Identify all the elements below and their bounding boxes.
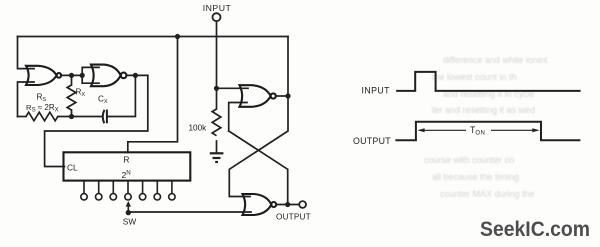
wire U3 bottom input	[229, 103, 247, 132]
wire left rail to U1 top input	[18, 37, 35, 69]
resistor 100k	[212, 109, 221, 136]
node RX bottom junction	[69, 114, 74, 119]
node U2 output junction	[133, 73, 138, 78]
wire SW to U4 bottom input	[128, 211, 251, 213]
wire bottom left stub	[18, 116, 27, 118]
counter block 2^N	[64, 152, 191, 180]
wire R feedback	[128, 37, 178, 153]
wire 100k bottom to ground	[216, 141, 218, 153]
svg-text:SeekIC.com: SeekIC.com	[480, 217, 590, 241]
wire U1 bottom input	[18, 82, 35, 117]
svg-text:all because the timing: all because the timing	[432, 172, 519, 182]
nor gate U1	[26, 66, 61, 85]
wire cross-couple U3 output to U4 input	[229, 96, 288, 197]
counter output terminals	[81, 182, 175, 201]
wire 100k top	[216, 88, 218, 109]
node SW junction	[126, 210, 131, 215]
nor gate U2	[91, 65, 126, 87]
wire U2 input tie bar	[82, 67, 99, 83]
node U1 out / RX junction	[69, 73, 74, 78]
wire U4 output	[276, 204, 299, 206]
svg-text:INPUT: INPUT	[362, 86, 391, 96]
svg-text:100k: 100k	[189, 123, 208, 132]
svg-text:ter and resetting it as wed: ter and resetting it as wed	[432, 105, 535, 115]
wire Rx top stub	[71, 75, 73, 85]
wire right rail	[287, 37, 289, 97]
resistor RX	[67, 85, 76, 110]
wire top rail	[18, 36, 289, 38]
wire CL feedback	[45, 75, 148, 166]
resistor RS	[26, 112, 58, 121]
svg-text:SW: SW	[123, 216, 137, 226]
wire INPUT vertical	[216, 22, 218, 89]
wire U2 output	[126, 74, 147, 76]
wire bottom Rs to Cx	[58, 116, 102, 118]
svg-text:difference and white iones: difference and white iones	[443, 55, 548, 65]
wire U3 output	[276, 95, 288, 97]
wire Rx bottom stub	[71, 110, 73, 117]
node U4 output junction	[285, 202, 290, 207]
timing OUTPUT trace	[395, 122, 580, 141]
node INPUT / 100k junction	[214, 86, 219, 91]
wire U1 output to U2 input	[61, 74, 82, 76]
node U3 output junction	[285, 93, 290, 98]
wire cross-couple U4 output to U3 input	[229, 131, 288, 205]
nor gate U3	[240, 85, 276, 107]
wire U3 top input	[217, 87, 249, 89]
OUTPUT terminal	[299, 201, 306, 208]
nor gate U4	[243, 194, 277, 215]
INPUT terminal	[213, 13, 221, 21]
svg-text:OUTPUT: OUTPUT	[353, 136, 391, 146]
svg-text:course with counter on: course with counter on	[424, 155, 515, 165]
svg-text:the lowest count in th: the lowest count in th	[432, 72, 517, 82]
svg-text:OUTPUT: OUTPUT	[276, 212, 311, 221]
svg-text:R: R	[123, 154, 129, 164]
svg-text:CL: CL	[67, 162, 78, 172]
timing INPUT trace	[396, 72, 580, 91]
ground	[210, 153, 224, 162]
node top rail / R feedback junction	[175, 34, 180, 39]
svg-text:counter MAX during the: counter MAX during the	[440, 189, 535, 199]
svg-text:INPUT: INPUT	[203, 3, 232, 13]
capacitor CX	[103, 110, 107, 124]
svg-text:RS ≈ 2RX: RS ≈ 2RX	[26, 103, 59, 114]
wire Cx to U2 output node	[107, 75, 135, 116]
Ton dimension arrow	[417, 128, 539, 132]
faint page bleed-through text (decorative)	[424, 55, 548, 199]
SW selector arrow	[126, 201, 131, 213]
node U2 input bar junction	[80, 73, 85, 78]
